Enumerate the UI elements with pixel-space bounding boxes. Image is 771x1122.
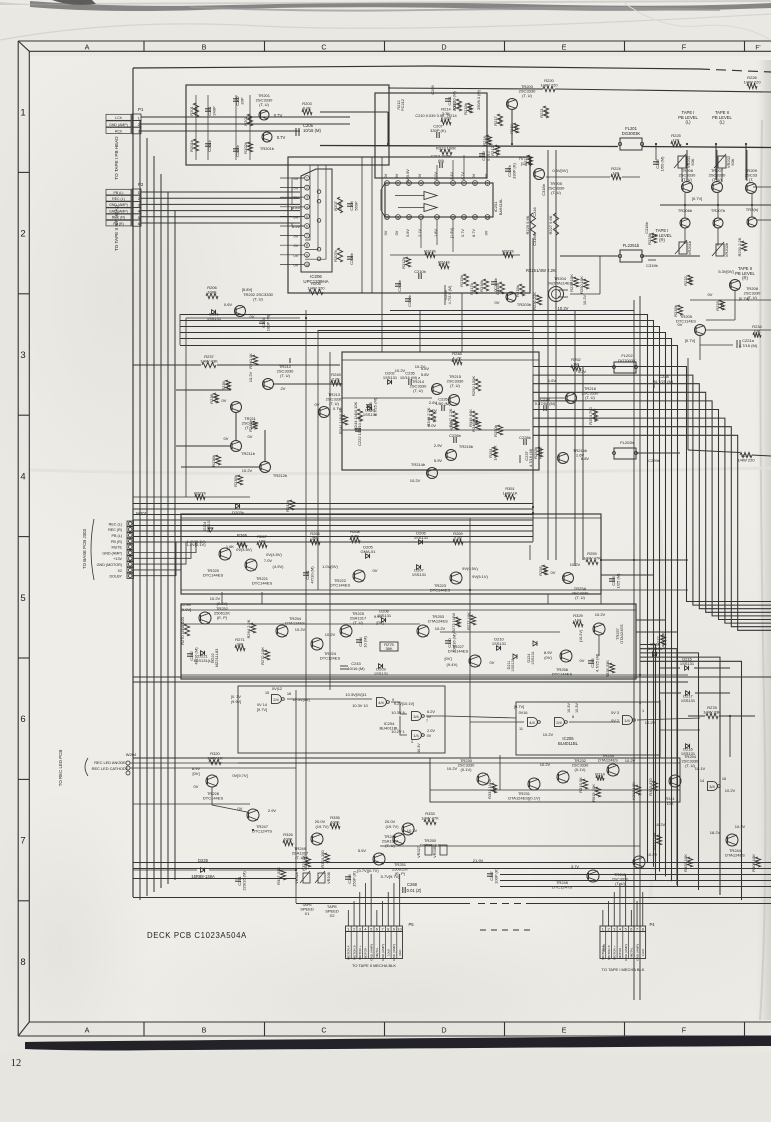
wire vertical [295,690,297,903]
wire TR204 to FL2251b [570,293,600,295]
svg-text:8V: 8V [485,173,489,178]
resistor R241 1/4W 3K [338,408,348,434]
resistor R217 [493,114,503,126]
svg-text:8: 8 [474,182,476,186]
svg-text:4.7/25 (M): 4.7/25 (M) [595,653,600,672]
svg-text:5.9V: 5.9V [434,458,443,463]
svg-text:4.7/16 (M): 4.7/16 (M) [528,448,533,467]
transistor TR224 DTC124ES [311,638,323,650]
resistor R219 [509,123,519,134]
svg-text:D: D [441,1026,446,1035]
wire schematic top boundary [133,66,700,69]
svg-text:REC LED CATHODE: REC LED CATHODE [92,766,129,771]
wire bus bundle B line 9 [533,435,771,630]
svg-text:METAL: METAL [630,947,634,957]
svg-text:TO BASE PCB J303: TO BASE PCB J303 [82,528,87,568]
wire row3 bus a [318,330,530,332]
svg-text:4: 4 [411,740,413,744]
svg-text:5.3V[0V]: 5.3V[0V] [718,269,733,274]
svg-text:10K: 10K [753,329,760,334]
svg-text:10: 10 [305,263,309,267]
svg-text:DECK PCB C1023A504A: DECK PCB C1023A504A [147,931,247,940]
capacitor C271 220/16 [235,871,247,891]
svg-text:R317b: R317b [469,282,474,295]
transistor TR249 2SA1317 [311,833,323,845]
ic IC201 top pin 7 [462,181,467,186]
svg-text:REC (L): REC (L) [112,197,125,201]
svg-text:(0V): (0V) [544,655,552,660]
svg-text:1/4: 1/4 [413,733,419,738]
wire logic lower bus 2 [238,762,430,764]
svg-text:[0V]: [0V] [192,771,199,776]
resistor R271 33K [235,637,246,651]
diode D207 1SS131 [412,565,427,577]
svg-text:560P: 560P [354,201,359,211]
svg-text:10.2V: 10.2V [647,852,658,857]
transistor TR221 DTC144ES [245,559,257,571]
svg-text:GND (AMP): GND (AMP) [109,123,128,127]
wire row5 right bus 2 [601,574,653,576]
ic IC201 top pin 9 [485,181,490,186]
svg-text:R240 1K: R240 1K [248,353,253,369]
wire gate 1/4 feed [400,716,407,735]
svg-text:TR215b: TR215b [459,444,474,449]
svg-text:0V: 0V [294,176,299,181]
svg-text:0V: 0V [580,658,585,663]
capacitor C205 [295,128,297,136]
svg-text:10.2V: 10.2V [725,788,736,793]
svg-text:6: 6 [138,222,140,226]
wire W204 lines [130,762,680,764]
svg-text:R222b: R222b [502,249,515,254]
svg-text:C319b: C319b [646,263,659,268]
svg-text:330P (K): 330P (K) [430,128,446,133]
wire W201 pin 6 lead [134,542,197,553]
svg-text:10u5: 10u5 [641,949,645,956]
wire IC206 fan [292,178,304,226]
filter FL202b [614,448,636,459]
svg-text:VR206: VR206 [327,872,331,884]
svg-text:12K: 12K [672,138,679,143]
resistor R223b [647,232,657,245]
svg-text:PB (L): PB (L) [114,191,124,195]
wire row7 box [430,758,680,802]
svg-text:10.2V: 10.2V [248,371,253,382]
wire FL202b out [636,452,680,454]
svg-text:1SS131: 1SS131 [511,658,515,672]
transistor TR201b [260,132,275,151]
svg-text:(9.4V): (9.4V) [447,662,459,667]
svg-text:10K: 10K [666,801,673,806]
svg-text:3: 3 [613,927,615,931]
transistor TR203b [506,292,516,302]
svg-text:1.4V(0.1V): 1.4V(0.1V) [186,542,206,547]
svg-text:4: 4 [420,182,422,186]
wire P2 pin3 [141,203,300,205]
svg-text:DTA124ES: DTA124ES [428,619,448,624]
svg-text:1SS131: 1SS131 [648,646,663,651]
svg-text:[1.9V]: [1.9V] [450,228,454,238]
svg-text:DTC144ES: DTC144ES [203,796,224,801]
wire trunk x556 [555,150,557,560]
resistor R207b [333,248,343,262]
svg-text:3: 3 [138,130,140,134]
svg-text:17: 17 [473,216,477,220]
wire x533 trunk [532,238,534,366]
wire riser 2 [532,375,534,509]
capacitor C319b [648,259,656,261]
wire bottom bus right 3 [500,886,771,888]
resistor R213b [424,249,437,258]
wire schematic left trunk vertical [132,68,134,897]
wire row2b baseline [390,310,634,312]
svg-text:11: 11 [396,216,400,220]
svg-text:3.4V: 3.4V [450,172,454,180]
svg-text:(T, U): (T, U) [413,388,423,393]
svg-text:R316b: R316b [479,279,484,292]
svg-text:B: B [202,1026,207,1035]
svg-text:R327 33K: R327 33K [276,867,281,885]
svg-text:RCh: RCh [115,129,122,133]
svg-text:1: 1 [138,191,140,195]
svg-text:12: 12 [11,1058,22,1069]
wire W201 pin 10 lead [134,542,177,576]
wire vertical [317,330,319,590]
svg-text:E: E [562,1026,567,1035]
svg-text:REC: REC [398,948,402,955]
wire trunk x640 [639,296,641,1000]
svg-text:(M): (M) [438,158,445,163]
resistor R229 5.6K [525,213,536,235]
resistor R248 4.7K [452,351,463,365]
gate IC204 4/4 [377,698,390,707]
wire logic upper bus 1 [133,676,771,678]
svg-text:10/16 (M) z: 10/16 (M) z [400,375,420,380]
svg-text:10.2V: 10.2V [595,612,606,617]
resistor R226 22K [532,292,542,310]
transistor TR207 2SC3330 [709,168,726,193]
diode D206 1SS131 [414,531,429,545]
capacitor C2xx 1/25 [609,573,621,589]
transistor TR251 250612K [373,853,385,865]
svg-text:1SS131: 1SS131 [363,412,378,417]
ic IC201 top pin 2 [396,181,401,186]
resistor R268 2.2K [350,529,361,543]
wire trunk x634 [633,300,635,1000]
svg-text:2: 2 [306,186,308,190]
svg-text:P1: P1 [138,107,144,112]
svg-text:0V: 0V [678,322,683,327]
svg-text:0V: 0V [222,398,227,403]
resistor R310 10K [652,832,662,850]
resistor R222b [502,249,515,258]
transistor TR211b [231,441,242,452]
wire main bus y144 [320,146,618,147]
wire vertical [529,545,531,560]
wire left risers to row3 [185,318,187,497]
wire row6 right out 2 [636,631,677,633]
svg-text:2: 2 [138,123,140,127]
svg-text:C268: C268 [407,882,418,887]
svg-text:6.2K: 6.2K [303,106,312,111]
svg-text:10K: 10K [612,171,619,176]
wire op-amp B input [398,207,424,209]
wire row5-6 divider [181,593,601,595]
resistor R214b [438,260,451,269]
svg-text:8.5V: 8.5V [292,224,301,229]
svg-text:R215b: R215b [459,274,464,287]
transistor TR204 DVIOTA114ES [549,287,569,302]
resistor R324 150 [320,850,330,868]
resistor R244 10K [353,402,363,431]
svg-text:1: 1 [20,107,25,118]
transistor TR257 DTA124ES [593,623,605,635]
svg-text:R227 5.6K: R227 5.6K [548,215,553,234]
capacitor C226 1/50 [436,397,452,411]
wire IC206 pin 7 [280,235,304,237]
svg-text:10.3V: 10.3V [567,703,571,713]
wire trunk x575 [574,310,576,566]
svg-text:5: 5 [370,927,372,931]
capacitor C202b [233,144,240,157]
svg-text:1: 1 [138,116,140,120]
svg-text:0V: 0V [472,173,476,178]
resistor R213 100K [436,146,456,155]
wire left trunk bundle line 1 [139,120,141,900]
wire R278 bus [688,715,705,717]
wire bus bundle B line 1 [533,367,771,602]
svg-text:6: 6 [630,927,632,931]
svg-text:3: 3 [138,203,140,207]
transistor TR202 2SC3330 [235,292,274,317]
svg-text:7: 7 [381,927,383,931]
svg-text:3: 3 [306,196,308,200]
potentiometer VR201b [679,242,687,254]
transistor TR216b [558,453,569,464]
wire R224 east [622,176,640,178]
svg-text:1M: 1M [248,118,253,124]
svg-text:+13V: +13V [113,557,122,561]
diode D203 1SS131 [363,406,378,417]
wire bottom bus 6 [133,897,470,899]
resistor R320 1/4W 1K [207,751,223,765]
svg-text:0V: 0V [490,660,495,665]
svg-text:(T, U): (T, U) [585,395,595,400]
svg-text:1.5K: 1.5K [514,125,519,134]
wire gate 3/4 out [426,715,445,717]
gate IC205 1/4 [623,716,636,725]
wire P2 pin4 [141,210,300,212]
wire mid trunk x688 vertical [687,358,689,450]
wire vertical [381,293,383,352]
capacitor C206b [347,252,354,265]
transistor TR2xx DTA124ES [417,625,429,637]
svg-text:1/4W 220: 1/4W 220 [307,286,325,291]
wire left trunk bundle line 2 [146,138,148,896]
svg-text:C208b: C208b [397,279,402,292]
resistor R270 1/4W 820 [180,616,190,645]
svg-text:MOTOR B: MOTOR B [352,945,356,959]
wire bus drop x687 [686,150,688,180]
resistor R225 12K [671,133,682,147]
svg-text:10/16 (M): 10/16 (M) [303,128,322,133]
svg-text:5.8V: 5.8V [421,372,430,377]
transistor TR244 DTA124ES [726,834,738,846]
wire TR206b row junctions [684,204,686,206]
svg-text:METAL: METAL [375,947,379,957]
filter FL2251b [620,250,642,262]
svg-text:MOTOR A: MOTOR A [347,944,351,959]
wire stage6 bottom bus b [181,678,636,680]
resistor R234 10K [752,324,762,338]
wire W201 harness line 5 [134,525,534,527]
wire P5 pin 8 riser [387,892,389,926]
svg-text:8.8V: 8.8V [581,456,590,461]
resistor R258 53K [538,565,548,576]
wire P4 pin 5 riser [625,874,627,926]
wire bus bundle A line 2 [180,321,654,867]
svg-text:15: 15 [265,691,269,695]
svg-text:5: 5 [306,215,308,219]
svg-text:0.7V: 0.7V [277,135,286,140]
svg-text:1/50 (M): 1/50 (M) [436,401,452,406]
wire P2 pin6 [141,222,300,224]
resistor R264 2.2K [246,619,256,638]
resistor R252 1W [571,357,582,371]
wire bus bundle B line 8 [533,427,771,627]
wire F col bus y345 [700,344,733,346]
svg-text:TR212b: TR212b [273,473,288,478]
capacitor C225 4.7/25 [366,397,378,416]
svg-text:DTC144ES: DTC144ES [330,583,351,588]
svg-text:1SS131: 1SS131 [531,651,535,665]
svg-text:10/16 (M): 10/16 (M) [347,666,365,671]
svg-text:DG7003K: DG7003K [618,358,636,363]
resistor R277 10K [466,612,476,630]
svg-text:R214b: R214b [438,260,451,265]
capacitor C241 47/10 [303,566,315,584]
op-amp triangle B [424,204,437,212]
wire IC206 pin 6 [280,225,304,227]
svg-text:(4.9V): (4.9V) [273,564,285,569]
svg-text:36K: 36K [385,646,392,651]
svg-text:1W: 1W [573,362,579,367]
wire W201 harness line 3 [134,514,534,516]
svg-text:33K: 33K [544,109,549,116]
svg-text:DTC144ES: DTC144ES [203,573,224,578]
gate IC205 2/4 [555,718,568,727]
capacitor C204 100P [259,314,271,331]
capacitor C201b [205,139,212,152]
transistor TR213 2SC3330 [319,407,330,418]
ic IC201 bottom pin 9 [485,215,490,220]
svg-text:R349 64K: R349 64K [468,409,473,427]
svg-text:R314: R314 [595,772,605,777]
svg-text:0V: 0V [495,300,500,305]
wire row6 right out 1 [636,619,665,621]
resistor R203 6.2K [302,101,313,115]
svg-text:C: C [321,43,326,52]
wire gate out right [660,729,700,731]
gate IC205 4/4 [528,718,541,727]
transistor TR206b [678,208,693,228]
wire stage3 internal bus1 [342,397,432,399]
wire TR207 stem [716,150,718,181]
diode D217 1SS131 [681,691,696,703]
svg-text:0V: 0V [384,230,388,235]
svg-text:10.3V[0V]: 10.3V[0V] [292,697,309,702]
capacitor C202 33P [233,95,245,105]
svg-text:2/4: 2/4 [556,720,562,725]
svg-text:0V: 0V [294,243,299,248]
svg-text:C226b: C226b [449,433,462,438]
gate IC205 3/4 [708,782,721,791]
svg-text:TO TAPE II R/P HEAD: TO TAPE II R/P HEAD [114,204,119,251]
capacitor C222 100/10 [355,415,362,446]
ic IC206 pin 3 [305,195,310,200]
wire vertical [305,310,307,870]
svg-text:C209: C209 [430,85,435,94]
svg-text:C: C [321,1026,326,1035]
brace W201 [91,519,94,580]
svg-text:10u5: 10u5 [386,949,390,956]
svg-text:C210b: C210b [414,269,427,274]
svg-text:2.2K: 2.2K [454,536,463,541]
svg-text:[1.2V]: [1.2V] [521,161,531,166]
diode D201 1SS131 [207,310,222,321]
wire W201 harness line 1 [134,503,534,505]
resistor R276 33K [656,632,666,650]
svg-text:R229 5.6K: R229 5.6K [525,215,530,234]
resistor R317 [452,99,462,111]
diode D203b [232,504,245,515]
wire stage6 box inner top [181,609,636,611]
resistor R347 2.2K [448,408,458,427]
svg-text:9: 9 [393,927,395,931]
ic IC201 top pin 6 [451,181,456,186]
resistor R272 10K [260,647,270,665]
potentiometer VR327 [425,845,432,855]
resistor R250b [493,424,503,437]
svg-text:0V: 0V [315,402,320,407]
resistor R233b [673,304,683,317]
transistor TR225 2SA1317 [340,625,352,637]
svg-text:F: F [682,43,687,52]
svg-text:470: 470 [456,619,461,626]
wire TR209 stem [746,150,748,181]
wire W201 harness line 8 [134,541,534,543]
wire bus bundle C line 3 [640,653,699,890]
capacitor C213 0.012 [479,150,491,161]
svg-text:10 (M): 10 (M) [363,636,368,648]
svg-text:15: 15 [451,216,455,220]
svg-text:2.9V: 2.9V [434,443,443,448]
resistor R226b 1/4W 220 [743,75,761,89]
wire stage5 box [181,514,601,594]
svg-text:(T, U): (T, U) [450,383,460,388]
svg-text:W201: W201 [136,511,148,516]
svg-text:8: 8 [387,927,389,931]
svg-text:1.5K: 1.5K [720,302,725,311]
svg-text:R272 10K: R272 10K [260,647,265,665]
wire gate feed [470,721,524,723]
wire row7 bus [430,789,680,791]
svg-text:16: 16 [722,777,726,781]
transistor TR216 2SC3330 [566,393,577,404]
transistor TR212b [260,462,271,473]
svg-text:2.1V: 2.1V [418,229,422,237]
svg-text:350/6.3 (M): 350/6.3 (M) [476,89,481,110]
